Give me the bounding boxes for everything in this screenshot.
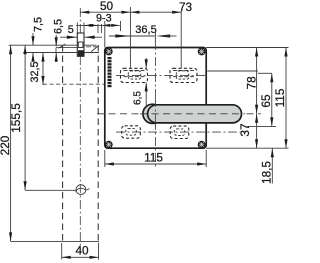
- dimension 9-3 (door to plate gap) and 5 (tab) arrows: [76, 13, 120, 34]
- dimension 6,5 in plate: [132, 58, 148, 107]
- svg-text:18,5: 18,5: [260, 161, 274, 184]
- slot bottom-left (hidden/dashed): [122, 126, 141, 138]
- door frame profile left edge (dashed): [62, 45, 64, 241]
- dimension 18,5: [260, 148, 274, 184]
- plate vertical centerline: [154, 41, 156, 167]
- svg-text:6,5: 6,5: [132, 91, 143, 105]
- door centerline (dash-dot): [79, 8, 81, 252]
- dimension 36,5: [105, 21, 177, 48]
- dimension 115 bottom: [105, 150, 206, 167]
- svg-text:36,5: 36,5: [135, 24, 156, 36]
- svg-text:50: 50: [100, 0, 114, 13]
- svg-text:73: 73: [179, 0, 193, 14]
- keyhole slot top-right (hidden/dashed): [170, 68, 197, 82]
- screw bottom-left: [105, 141, 113, 149]
- dimension 6,5 top-left: [53, 19, 65, 62]
- dimension 155,5: [9, 45, 76, 190]
- handle hub outer ring: [143, 104, 162, 123]
- dimension 5 (tab width label): [68, 24, 74, 36]
- dimension 220: [0, 45, 12, 241]
- svg-text:5: 5: [68, 24, 74, 36]
- svg-text:220: 220: [0, 135, 12, 155]
- dimension 50: [80, 0, 130, 68]
- door frame profile right edge (dashed): [97, 45, 99, 241]
- screw top-right: [198, 48, 206, 56]
- SCHMERSAL logo strip on plate: [108, 57, 112, 87]
- svg-text:9-3: 9-3: [96, 13, 112, 25]
- right extension line from slot track level: [207, 70, 257, 72]
- spindle hole in door: [76, 185, 90, 195]
- plate top extension right: [206, 47, 288, 49]
- handle lever: [148, 105, 242, 123]
- mounting plate: [105, 48, 206, 149]
- dimension 32,5: [29, 53, 45, 85]
- svg-text:6,5: 6,5: [53, 19, 65, 34]
- svg-text:65: 65: [259, 94, 273, 108]
- handle horizontal centerline: [97, 113, 261, 115]
- svg-text:155,5: 155,5: [9, 103, 23, 133]
- svg-text:40: 40: [75, 244, 89, 258]
- slot bottom-right (hidden/dashed): [170, 126, 189, 138]
- svg-text:115: 115: [273, 88, 287, 107]
- svg-text:115: 115: [144, 150, 163, 164]
- dimension 7,5: [31, 17, 44, 62]
- latch reference line: [23, 52, 99, 54]
- screw top-left: [105, 48, 113, 56]
- actuator tab at door top: [56, 23, 98, 57]
- centerline over handle: [140, 113, 245, 115]
- dimension 78: [245, 48, 259, 114]
- plate bottom extension right: [206, 147, 288, 149]
- top slot row centerline: [116, 74, 206, 76]
- dimension 40: [62, 243, 99, 260]
- svg-text:37: 37: [238, 123, 252, 136]
- tab width arrows: [60, 36, 102, 39]
- dimension 65: [259, 73, 273, 126]
- bottom slot row centerline: [116, 131, 246, 133]
- dimension 37: [238, 114, 258, 148]
- dimension 73: [130, 0, 192, 68]
- door bottom reference line: [11, 240, 99, 242]
- dimension 115 right: [273, 48, 288, 149]
- short ref dash: [86, 46, 99, 48]
- svg-text:78: 78: [245, 76, 259, 90]
- top reference line: [9, 44, 97, 46]
- svg-text:7,5: 7,5: [33, 17, 45, 32]
- keyhole slot top-left (hidden/dashed): [121, 68, 148, 82]
- svg-text:32,5: 32,5: [29, 61, 41, 82]
- right extension line lower: [248, 125, 277, 127]
- slot bottom dashed construction line: [43, 83, 165, 85]
- screw bottom-right: [198, 141, 206, 149]
